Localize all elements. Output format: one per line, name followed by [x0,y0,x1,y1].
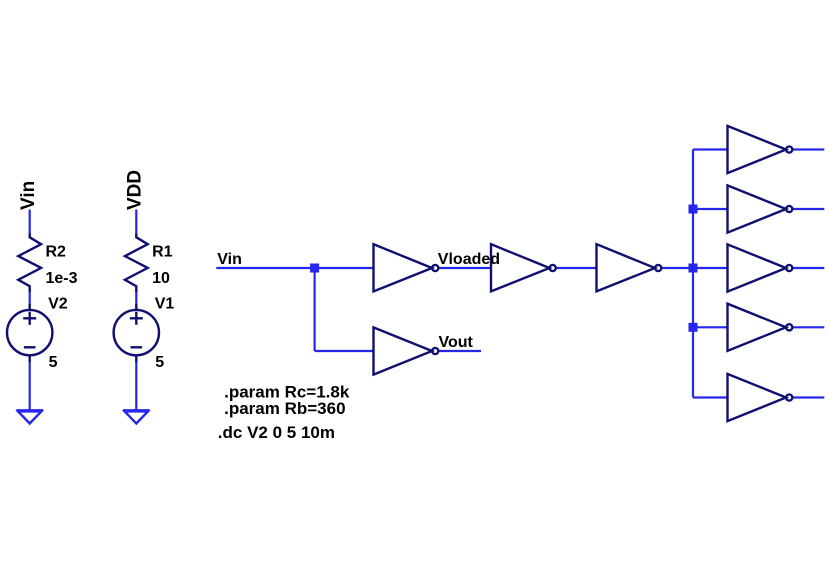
svg-text:1e-3: 1e-3 [46,270,78,287]
svg-text:V2: V2 [48,296,68,313]
svg-text:Vloaded: Vloaded [438,251,500,268]
svg-text:R1: R1 [152,244,173,261]
svg-text:R2: R2 [46,244,67,261]
svg-text:Vin: Vin [217,251,242,268]
svg-text:VDD: VDD [124,170,145,210]
svg-text:Vout: Vout [439,334,474,351]
svg-text:5: 5 [49,354,58,371]
svg-text:.dc V2 0 5 10m: .dc V2 0 5 10m [218,423,335,442]
svg-text:V1: V1 [155,296,175,313]
svg-text:Vin: Vin [18,181,39,210]
svg-text:5: 5 [155,354,164,371]
svg-text:.param Rb=360: .param Rb=360 [224,399,345,418]
svg-text:10: 10 [152,270,170,287]
